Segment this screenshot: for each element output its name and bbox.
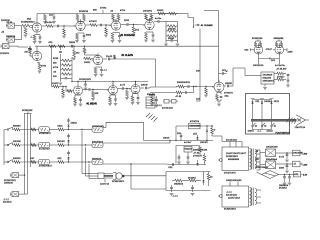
relay box comp [189,121,202,129]
svg-text:500p500p5: 500p500p5 [92,142,104,144]
bridge B1 [260,146,278,156]
resistor grid leak [24,28,28,38]
reg2 stack [199,146,202,156]
svg-text:4n74: 4n74 [120,85,126,87]
ladder rung 1 [166,25,178,28]
misc label jacks [1,20,11,33]
divider clean b [72,46,80,60]
svg-text:.022.: .022. [57,158,62,160]
svg-text:12AX712A: 12AX712A [295,126,306,129]
input jack J1 [6,22,18,28]
relay feed wire [233,67,235,69]
svg-text:47K47K47K: 47K47K47K [39,133,51,135]
svg-text:100K1: 100K1 [84,62,91,64]
bias cap b [191,185,195,196]
svg-text:3K33K33K: 3K33K33K [22,110,33,112]
input jack J3 [1,44,28,49]
tx1 feed wire [212,136,242,142]
capacitor C1 series [53,25,62,28]
PI right lead [284,48,294,53]
svg-text:100K100: 100K100 [4,183,14,185]
psu out 2 [302,163,308,167]
svg-text:680680: 680680 [13,126,21,128]
svg-text:22n22n22n: 22n22n22n [226,195,237,197]
svg-text:22n22n22n: 22n22n22n [226,140,237,142]
svg-text:.1.: .1. [30,37,33,39]
svg-text:47K47: 47K47 [266,49,273,51]
heater text [279,185,288,190]
wire row3 out [103,163,166,164]
wire clean 51 branch [51,46,52,87]
bridge B3 [257,167,279,178]
fs led labels [255,101,280,103]
tube V7 PI [273,43,284,54]
tx1 winding [250,149,252,170]
misc label top2 [120,10,126,12]
svg-text:220K: 220K [124,20,130,22]
loop left stack [149,95,158,107]
channel label #1 SCREAM [121,34,135,37]
PI res a1 [254,41,257,47]
plate resistor V2 a [76,14,79,21]
fs col 3 [271,100,273,126]
cable hatch preamp [146,113,158,122]
svg-text:10K: 10K [196,71,200,73]
wire V3B plate [83,46,98,55]
svg-text:FOOTSWITCH: FOOTSWITCH [276,133,291,135]
spkr verticals [81,129,89,179]
svg-text:.47.05.047: .47.05.047 [276,69,287,71]
bias bottom wire [166,190,211,192]
wire OT feed [233,68,261,76]
svg-text:4n74n74n7: 4n74n74n7 [39,149,51,151]
resistor R2 series [45,22,53,27]
cathode V5A [131,94,140,105]
reg2 diode [196,160,198,165]
svg-text:47K47K47K: 47K47K47K [224,173,236,175]
bias cap a [170,185,174,196]
wire to V1 grid [30,26,32,28]
rail tick label [100,7,107,13]
divider ladder left [164,22,168,47]
res row3b [50,158,81,163]
fs switch labels [248,130,274,132]
tx2 winding [250,188,252,206]
input jack J2 [6,36,18,42]
wire stage2-3 [85,24,90,26]
mix node dots [195,86,214,87]
tx2 top ticks [226,180,242,186]
mix series res [176,82,191,88]
res row1 [13,126,39,131]
bias feed wire [131,164,166,189]
svg-text:470K: 470K [41,66,47,68]
tube V1B [71,19,85,31]
reg2 cap b [186,152,190,164]
tx1 sec taps [255,150,260,170]
loop wire down [196,94,200,101]
ladder rung 2 [166,28,178,32]
reg2 text [193,150,208,158]
ladder rung 4 [166,38,178,41]
psu reg 3 [294,172,303,177]
switch column left [3,130,5,166]
tx1 text [226,152,247,161]
mean coupling 1 [83,88,93,91]
tube V2B [138,18,154,30]
channel label #1 CLEAN [122,54,134,57]
tx2 box [222,186,249,207]
svg-text:.1.1.1: .1.1.1 [226,192,232,194]
tube V5A mean3 [129,82,140,93]
svg-text:3K33K33K3: 3K33K33K3 [224,209,237,211]
svg-text:1M1M1: 1M1M1 [225,83,233,85]
svg-text:.022.: .022. [294,174,299,176]
rail dropper R/C [43,14,56,24]
svg-text:.022.: .022. [168,167,173,169]
resistor input grid stopper [21,22,30,27]
plate resistor V2 b [79,11,89,20]
clean ladder rung1 [53,58,72,62]
capacitor C3 [97,24,106,27]
mixer out cap [224,83,233,87]
svg-text:1W1W1W: 1W1W1W [263,75,273,77]
clean ladder left [59,57,63,85]
wire x200 vertical [199,29,201,95]
PI link wire [266,49,273,51]
mean grid res [65,86,72,93]
bus line 3 [30,116,32,167]
svg-text:10K10K10K: 10K10K10K [266,146,278,148]
fs sw 3 [271,123,276,130]
svg-text:47K47K: 47K47K [89,21,97,23]
switch row3 [4,159,12,162]
channel label #1 MEAN [87,103,98,106]
footswitch box [246,94,290,135]
bias left edge [165,172,167,191]
diode pair row1 [67,118,77,130]
cathode network V4 [144,32,155,42]
svg-text:+40V: +40V [303,153,308,155]
wire aux2 [22,193,28,195]
fs col 2 [261,100,263,126]
svg-text:1W1W1: 1W1W1 [168,28,177,30]
PI left lead [244,48,254,51]
psu out 1 [302,152,308,156]
wire psu row3 [279,174,296,176]
svg-text:6806: 6806 [86,35,92,37]
rail junction dots [52,46,85,47]
psu reg 2 [293,161,303,167]
svg-text:1M1M1M: 1M1M1M [174,184,183,186]
fs col 1 [252,100,254,126]
wire row2 out [103,140,171,143]
resistor grid V4 [131,24,140,36]
svg-text:3K33K33K3: 3K33K33K3 [226,156,239,158]
reg2 outline [176,146,200,164]
fs sw 1 [252,123,257,130]
svg-text:+16V: +16V [303,164,308,166]
svg-text:.47.05: .47.05 [175,96,182,98]
grid resistor V3B [83,57,93,64]
relay res right [211,125,216,136]
svg-text:1K51K51K5: 1K51K51K5 [92,126,105,128]
mean divider [61,86,66,98]
svg-text:220K220: 220K220 [1,20,11,22]
res row1c [31,128,36,131]
svg-text:220K: 220K [288,52,294,54]
tube V3A clean [28,48,42,61]
svg-text:680680680: 680680680 [228,159,240,161]
wire V3A plate [36,46,38,49]
OT box [261,72,275,84]
wire psu row2 [276,163,286,165]
ldr row2 [39,142,51,150]
tx2 label [224,209,237,211]
svg-text:2K22: 2K22 [274,101,280,103]
filter cap 2 [279,163,293,173]
svg-text:470K470: 470K470 [259,167,269,169]
plate resistor V4 [143,11,153,20]
svg-text:330K330K33: 330K330K33 [177,82,191,84]
svg-text:.47.05.: .47.05. [193,153,200,155]
plate resistor V3 [110,10,120,21]
svg-text:2K22K2: 2K22K2 [188,177,197,179]
wire x218 vertical [218,11,220,83]
mix series cap [184,85,196,88]
bias bottom text [172,195,178,197]
out res 1 [274,72,286,75]
svg-text:12AX712: 12AX712 [100,182,110,185]
svg-text:4n74n7: 4n74n7 [184,142,192,144]
PI res b1 [275,41,278,47]
mean rail drop V7 [135,81,136,85]
tx2 sec taps [257,190,262,203]
svg-text:1W1W: 1W1W [141,85,148,87]
svg-text:.1.1.1: .1.1.1 [172,195,178,197]
clean ladder rung4 [53,72,72,76]
mean input network [52,82,62,88]
rail res a [157,10,165,15]
svg-text:2K22K2: 2K22K2 [279,188,288,190]
svg-text:500p5: 500p5 [168,38,175,40]
resistor clean out [113,55,116,59]
svg-text:47K4: 47K4 [53,67,59,69]
wire row1 out [103,122,213,140]
connector stack [146,94,155,108]
wire stage1-2 [42,25,46,27]
mean rail drop V6 [112,81,113,86]
capacitor C4 [124,20,131,26]
speaker jack text [112,181,125,183]
wire B+ rail top [37,13,178,15]
svg-text:220K2: 220K2 [71,123,78,125]
fs sw 2 [261,123,266,130]
mean grid2 res [91,89,108,101]
cathode R V2 [75,34,79,43]
divider clean a [59,46,62,58]
mix gnd res [204,87,208,98]
svg-text:3K33K33K: 3K33K33K [252,38,263,40]
svg-text:#1 CLEANE: #1 CLEANE [201,24,213,27]
svg-text:.022.: .022. [48,42,53,44]
svg-text:330K: 330K [279,167,285,169]
branch2 wire [150,92,176,94]
tube V5B mixer [212,80,224,92]
svg-text:470K47: 470K47 [277,76,285,78]
res row2b [50,141,81,146]
branch2 res [175,91,182,98]
mean rail drop V5 [77,81,78,84]
tube V6 PI [252,43,263,54]
cathode V3A [37,63,47,74]
wire clean B+ rail [35,45,219,47]
svg-text:#1 MEAN: #1 MEAN [87,103,98,106]
cathode C V1 [35,34,42,44]
bias right comps [207,172,213,187]
svg-text:470K470K47: 470K470K47 [39,166,53,168]
clean ladder rung3 [53,67,72,71]
tx2 text [226,192,241,200]
clean ladder right [71,57,72,82]
wire top right corner [204,10,219,12]
svg-text:47K4: 47K4 [120,10,126,12]
svg-text:4n74n74n: 4n74n74n [275,65,285,67]
cathode network V3 [111,33,122,43]
wire V2 plate join [78,21,85,22]
svg-text:470K4: 470K4 [100,7,107,9]
tx2 sec winding [255,189,257,205]
cathode V4A [73,95,82,106]
ldr row1 [39,127,52,135]
wire jack join [18,26,22,40]
ldr row3 [39,159,53,167]
svg-text:330K3: 330K3 [157,10,164,12]
wire plug to bias [125,175,167,177]
svg-text:680680680: 680680680 [190,126,202,128]
svg-text:#1 SCREAM: #1 SCREAM [121,34,135,37]
svg-text:1M1M1M: 1M1M1M [92,159,101,161]
bus terminals [22,110,33,116]
tube V4A mean [72,84,83,95]
relay top wire [176,125,213,127]
reg2 cap a [177,155,181,165]
wire row3 to reg [166,163,172,166]
res row2 [13,141,39,146]
ldr row2b [81,142,104,148]
svg-text:10K10K10: 10K10K10 [253,65,264,67]
svg-text:470K470: 470K470 [224,93,234,95]
svg-text:100K10: 100K10 [27,21,35,23]
misc loop vertical text [196,71,200,73]
psu out 3 [303,175,308,177]
speaker jack [98,173,124,186]
PI res a2 [252,38,263,47]
wire V1 plate [36,14,38,21]
tx1 top ticks [226,140,242,147]
svg-text:V1A: V1A [27,18,31,21]
resistor to gnd st3 [104,24,111,37]
svg-text:1W1W1: 1W1W1 [57,141,66,143]
branch2 join [193,86,194,93]
out res 2 [274,76,286,80]
bus line 1 [24,116,26,194]
switch row1 [4,127,12,130]
wire clean send [115,59,178,87]
cathode V3B [94,67,108,77]
bus line 2 [27,116,29,194]
svg-text:500p500: 500p500 [263,78,272,80]
relay text [163,137,209,144]
tx1 sec winding [255,150,257,169]
rail comp clean 2 [58,45,65,48]
svg-text:100K1: 100K1 [149,95,156,97]
mean out to mix [150,87,156,88]
diode pair row3 [67,151,70,163]
loop text [156,105,173,110]
svg-text:68068068: 68068068 [274,38,285,40]
wire psu row1 [276,152,286,154]
svg-text:330K330K3: 330K330K3 [263,81,275,83]
wire clean grid [30,54,32,56]
PI bottom text [253,65,285,67]
svg-text:12AX712AX712AX7: 12AX712AX712AX7 [226,152,247,155]
bias res a [172,179,186,185]
fs led 2 [260,99,264,104]
svg-text:22n22n2: 22n22n2 [3,202,12,204]
wire aux1 [22,174,26,175]
tube V4B mean2 [107,83,118,94]
wire stage3-4 [121,24,125,26]
filter cap 1 [279,152,293,162]
svg-text:.1.1.: .1.1. [257,130,262,132]
svg-text:22n22n22n: 22n22n22n [162,108,173,110]
svg-text:12A: 12A [196,98,200,101]
aux jack 1 [4,173,22,185]
svg-text:.047: .047 [24,52,29,54]
tx1 box [222,147,249,171]
tx2 core [252,188,253,206]
svg-text:100K100K100K: 100K100K100K [226,180,242,182]
misc label clean jack [0,53,10,55]
svg-text:22n22n: 22n22n [45,22,52,24]
heater cap b [288,174,292,185]
svg-text:4n74: 4n74 [279,156,285,158]
svg-text:12AX7: 12AX7 [52,82,59,85]
reg2 ic box [184,147,193,153]
loop jack return [172,100,179,104]
clean ladder rung5 [53,76,72,79]
clean ladder rung2 [53,63,72,67]
psu reg 1 [293,150,303,156]
wire rail corner [188,18,194,28]
svg-text:500p500p5: 500p500p5 [266,159,278,161]
res row2c [31,144,36,147]
node to clean send [193,26,194,27]
svg-text:4n74n: 4n74n [155,18,161,20]
capacitor out scream [154,18,166,23]
fs led 3 [270,99,274,104]
mean B+ rail [72,79,148,81]
tx2 terminal [218,195,222,198]
resistor divider to gnd [62,25,71,38]
relay cap a [177,133,182,141]
ladder rung 3 [166,35,178,38]
res row3 [13,158,39,163]
clean out coupling [103,56,115,60]
svg-text:1K51K51K5: 1K51K51K5 [79,79,92,81]
svg-text:100K1: 100K1 [248,130,255,132]
